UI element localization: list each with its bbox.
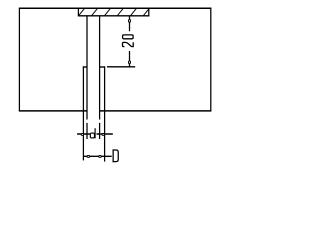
rod right line [99, 16, 101, 139]
ring arrowhead d right [102, 133, 105, 135]
plate bottom edge right segment [100, 110, 212, 112]
ring arrowhead 20 bottom [129, 61, 131, 64]
plate left edge [18, 8, 20, 111]
clamp bar left edge [77, 8, 79, 16]
dimension line d [77, 133, 113, 135]
plate top edge [19, 7, 212, 9]
sleeve left line [82, 66, 84, 160]
sleeve right line [104, 66, 106, 161]
digit 2 [123, 42, 134, 46]
ring arrowhead D right [99, 155, 102, 157]
dimension line 20 (two stubs with text gap) [129, 16, 131, 67]
digit 0 [123, 35, 134, 39]
sleeve top edge left [83, 66, 87, 68]
plate bottom edge left segment [19, 110, 87, 112]
ring arrowhead d left [81, 133, 84, 135]
label 20 (rotated 90deg CCW, narrow CAD glyphs) [123, 35, 134, 47]
clamp bar hatch [79, 9, 149, 16]
clamp bar bottom edge [78, 15, 150, 17]
label d [90, 128, 97, 138]
sleeve top edge right [100, 66, 106, 68]
clamp bar right edge [148, 8, 150, 16]
ring arrowhead 20 top [129, 19, 131, 22]
rod left line [86, 16, 88, 139]
dimension line D [83, 155, 111, 157]
ring arrowhead D left [87, 155, 90, 157]
label D [112, 150, 118, 162]
extension line for 20 [107, 66, 135, 68]
plate right edge [210, 8, 212, 111]
